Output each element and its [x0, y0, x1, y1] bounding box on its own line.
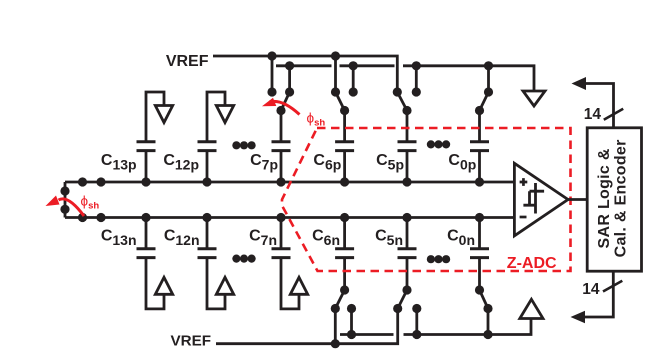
wire: top second rail segment 3 with corner down to ground arrow — [403, 66, 534, 91]
node VREF (bottom label) — [170, 333, 211, 349]
svg-text:VREF: VREF — [170, 333, 211, 349]
junction dot on top VREF rail at C6p stub — [331, 51, 340, 60]
SAR logic box U2 — [587, 128, 641, 271]
arrow-to-rail symbol above C12p — [207, 92, 234, 141]
svg-text:ϕsh: ϕsh — [307, 111, 326, 129]
junction dot on bottom VREF rail at C6n — [331, 339, 340, 348]
svg-text:Cal. & Encoder: Cal. & Encoder — [612, 139, 629, 257]
capacitor C13n — [137, 218, 156, 258]
phi_sh arrow (top, red) — [262, 98, 300, 115]
wire: top second rail segment 1 — [276, 64, 332, 67]
switch for C5n — [393, 259, 421, 335]
junction dot top rail2 at C6p — [349, 61, 358, 70]
svg-text:C5n: C5n — [375, 228, 403, 249]
arrowhead top feedback — [572, 77, 587, 90]
svg-text:C0p: C0p — [448, 152, 476, 173]
junction dot bottom rail2 at C0n — [483, 330, 492, 339]
svg-text:C7p: C7p — [250, 152, 278, 173]
capacitor C12p — [198, 142, 217, 182]
wire: top VREF rail with corner down to C5p left switch terminal — [213, 56, 397, 92]
junction dot on top VREF rail at C7p stub — [267, 51, 276, 60]
svg-text:C6n: C6n — [312, 228, 340, 249]
switch terminal dots on left vertical — [60, 186, 69, 195]
dots ellipsis between C12n and C7n — [232, 255, 255, 263]
capacitor C5n — [398, 218, 417, 258]
svg-text:14: 14 — [582, 281, 600, 298]
capacitor C7n — [272, 218, 291, 258]
dots ellipsis between C5n and C0n — [427, 255, 450, 263]
svg-text:ϕsh: ϕsh — [81, 194, 100, 212]
svg-text:C7n: C7n — [249, 228, 277, 249]
bus slash bottom — [603, 281, 622, 292]
wire: bottom feedback bus from SAR box — [583, 271, 613, 317]
svg-text:C0n: C0n — [447, 228, 475, 249]
switch for C6p — [331, 56, 358, 141]
arrow-to-rail symbol below C13n — [146, 259, 173, 309]
comparator - input marking — [520, 216, 527, 219]
switch for C7p (phi_sh) — [267, 56, 294, 141]
capacitor C6p — [335, 142, 354, 182]
arrow-to-rail symbol above C13p — [146, 92, 173, 141]
Z-ADC dashed boundary — [282, 128, 571, 271]
capacitor C0n — [470, 218, 489, 258]
junction dot top rail2 at C7p — [285, 61, 294, 70]
svg-text:VREF: VREF — [166, 53, 209, 70]
ground (open triangle, bottom right) — [520, 299, 543, 318]
junction dots on top DAC rail — [78, 177, 484, 186]
arrowhead bottom feedback — [571, 311, 586, 324]
svg-text:C5p: C5p — [376, 152, 404, 173]
wire: top second rail segment 2 — [340, 64, 395, 67]
arrow-to-rail symbol below C7n — [281, 259, 308, 309]
arrow-to-rail symbol below C12n — [207, 259, 234, 309]
svg-text:C6p: C6p — [313, 152, 341, 173]
wire: left vertical connecting rails (sampling switch) — [64, 182, 67, 218]
node VREF (top label) — [166, 53, 209, 70]
label SAR Logic & Cal. & Encoder (rotated) — [596, 139, 630, 257]
svg-text:Z-ADC: Z-ADC — [507, 255, 557, 272]
junction dots on bottom DAC rail — [78, 213, 484, 222]
dots ellipsis between C12p and C7p — [232, 141, 255, 149]
junction dot bottom rail2 at C5n — [412, 330, 421, 339]
hysteresis symbol — [523, 183, 544, 214]
svg-text:C12p: C12p — [163, 152, 199, 173]
wire: bottom VREF rail with corner up to C5n left switch terminal — [216, 309, 398, 344]
switch for C5p — [393, 66, 421, 141]
wire: top DAC rail to comparator + input — [65, 181, 514, 184]
switch for C0p — [475, 66, 493, 141]
svg-text:C13n: C13n — [101, 228, 137, 249]
wire: top feedback bus from SAR box — [584, 84, 614, 128]
ground (open triangle, top right) — [523, 91, 545, 106]
bus slash top — [604, 109, 623, 120]
svg-text:C13p: C13p — [101, 152, 137, 173]
junction dot top rail2 at C0p — [484, 61, 493, 70]
svg-text:14: 14 — [584, 106, 602, 123]
svg-text:C12n: C12n — [164, 228, 200, 249]
wire: bottom DAC rail to comparator - input — [65, 216, 514, 219]
wire: bottom second rail segment 1 — [340, 333, 394, 336]
wire: comparator output — [568, 198, 587, 201]
capacitor C7p — [272, 142, 291, 182]
dots ellipsis between C5p and C0p — [427, 140, 450, 148]
switch for C0n — [475, 259, 493, 335]
wire: bottom second rail segment 2 with corner up to ground arrow — [404, 319, 532, 335]
junction dot bottom rail2 at C6n — [347, 330, 356, 339]
junction dot top rail2 at C5p — [412, 61, 421, 70]
phi_sh arrow (left, red) — [46, 196, 85, 217]
op-amp comparator U1 — [514, 163, 568, 236]
capacitor C12n — [198, 218, 217, 258]
capacitor C0p — [470, 142, 489, 182]
switch for C6n — [331, 259, 356, 344]
capacitor C6n — [335, 218, 354, 258]
capacitor C13p — [137, 142, 156, 182]
comparator + input marking — [520, 178, 528, 186]
svg-text:SAR Logic &: SAR Logic & — [596, 148, 613, 248]
capacitor C5p — [398, 142, 417, 182]
